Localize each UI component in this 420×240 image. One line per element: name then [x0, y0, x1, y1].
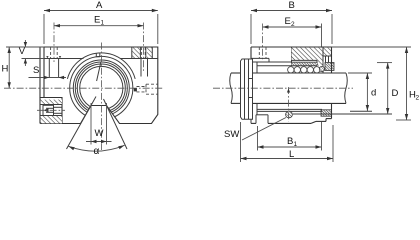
svg-text:1: 1 [101, 20, 105, 27]
svg-text:S: S [33, 65, 39, 76]
anti-rotation notch top [96, 53, 100, 57]
slot tick arrows [46, 56, 48, 58]
bottom lip line (section through opening) [293, 113, 392, 115]
shaft centerline [213, 87, 353, 89]
dimension D [377, 63, 399, 114]
mounting hole right (below flange) [141, 47, 148, 77]
dimension B [251, 0, 332, 44]
collar / end cap left [241, 59, 253, 119]
svg-text:1: 1 [294, 141, 298, 148]
svg-text:SW: SW [224, 129, 239, 140]
T-slot right view (hidden) [259, 47, 266, 58]
svg-text:L: L [289, 149, 294, 160]
dimension W [86, 103, 112, 145]
svg-text:A: A [96, 0, 103, 11]
svg-text:E: E [285, 16, 291, 27]
housing block section outline [251, 47, 332, 66]
dimension B1 [258, 122, 322, 151]
shaft [230, 73, 348, 103]
liner left end [256, 62, 258, 73]
svg-text:V: V [19, 46, 26, 57]
housing hatch top [292, 47, 332, 66]
svg-text:d: d [371, 88, 376, 99]
svg-text:H: H [2, 64, 9, 75]
housing block outline [40, 47, 158, 124]
dimension H [2, 47, 11, 88]
dimension A [44, 0, 158, 44]
alpha arc [69, 145, 125, 157]
bottom profile [251, 115, 332, 124]
liner bottom lines [257, 109, 372, 111]
balls row [288, 66, 325, 73]
dimension V [6, 40, 44, 66]
svg-text:E: E [94, 15, 100, 26]
bearing bore circles [67, 53, 135, 120]
alpha line right [104, 99, 128, 149]
SW label and leader [224, 118, 286, 141]
set screw hole right (hidden) [134, 84, 158, 94]
svg-text:B: B [287, 136, 293, 147]
section break line in bore [97, 63, 101, 82]
svg-text:2: 2 [291, 21, 295, 28]
dimension H2 [332, 47, 420, 120]
right edge of block [331, 47, 333, 119]
outer ring hatched band [292, 63, 318, 66]
centerline vertical left view [101, 43, 103, 151]
alpha line left [67, 97, 97, 150]
clamp screw [43, 105, 54, 115]
dimension d [348, 73, 376, 111]
set screw section [286, 87, 293, 122]
dimension S [29, 65, 67, 79]
flange hatch top-right [132, 47, 153, 59]
svg-text:2: 2 [416, 95, 420, 102]
svg-text:D: D [392, 88, 399, 99]
centerline horizontal left view [4, 87, 164, 89]
dimension E2 [263, 16, 322, 61]
T-slot top-left (hidden) [51, 47, 58, 59]
slot recess left (visible) [49, 59, 58, 78]
step line under flange [44, 58, 158, 60]
dimension L [241, 122, 334, 162]
svg-text:W: W [95, 128, 104, 139]
dimension E1 [54, 15, 144, 73]
clamp boss bottom-left [37, 100, 65, 124]
svg-text:B: B [289, 0, 295, 11]
svg-text:α: α [94, 146, 100, 157]
seal bottom right [321, 110, 332, 116]
seal top right [325, 63, 334, 71]
liner top line [257, 65, 317, 67]
